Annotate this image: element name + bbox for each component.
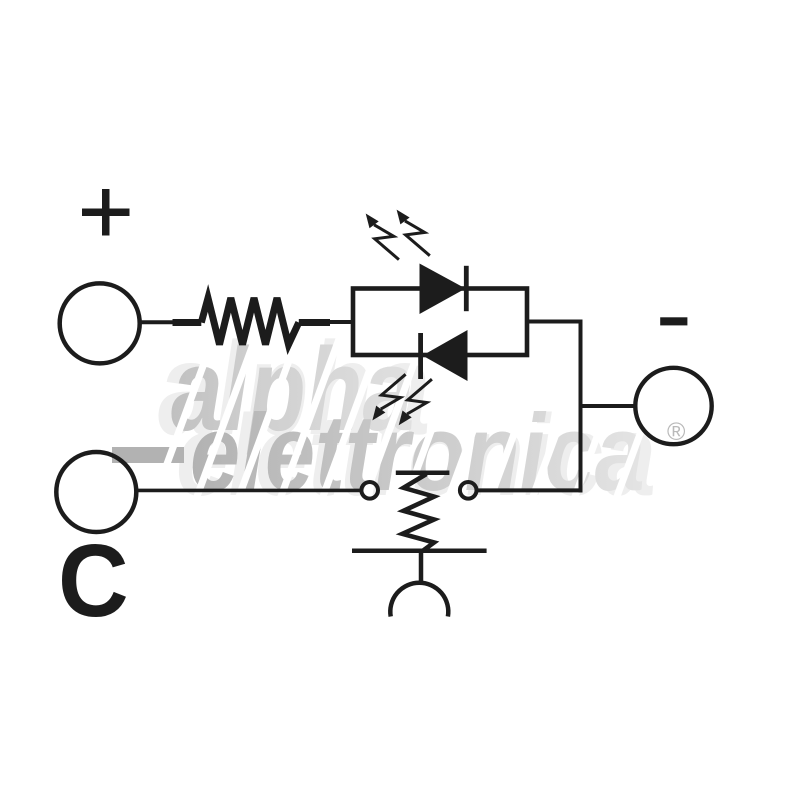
switch contact right: [460, 482, 477, 499]
wire from bus to - terminal: [581, 404, 636, 408]
wire from resistor R1 to LED box: [330, 320, 353, 324]
LED D1 (upper, anode left): [420, 264, 469, 315]
LED D1 light arrow a: [366, 214, 399, 260]
actuator bottom bar: [352, 549, 487, 554]
terminal C (bottom-left circle): [56, 452, 136, 532]
wire from LED box to right bus: [527, 320, 579, 324]
actuator dome: [390, 583, 448, 617]
actuator stem: [419, 552, 424, 585]
resistor R1: [173, 298, 331, 345]
LED D2 (lower, anode right): [418, 330, 467, 381]
switch contact left: [361, 482, 378, 499]
LED D2 light arrow a: [372, 374, 405, 420]
wire from right contact to bus: [477, 488, 581, 492]
terminal - (right circle): [635, 368, 711, 444]
LED pair box: [353, 289, 527, 356]
svg-text:elettronica: elettronica: [190, 393, 645, 514]
watermark alpha elettronica logo: [112, 315, 656, 520]
terminal + (top-left circle): [60, 283, 140, 363]
wire from + terminal to resistor R1: [140, 320, 176, 324]
reed spring (zigzag): [402, 474, 434, 551]
plus label: [82, 189, 130, 236]
wire from C terminal to switch contact: [136, 489, 362, 493]
LED D2 light arrow b: [399, 379, 432, 425]
reed spring top bar: [396, 470, 450, 475]
LED D1 light arrow b: [397, 210, 430, 256]
right bus wire (vertical): [579, 320, 583, 493]
minus label: [660, 317, 687, 325]
svg-text:C: C: [58, 524, 129, 639]
